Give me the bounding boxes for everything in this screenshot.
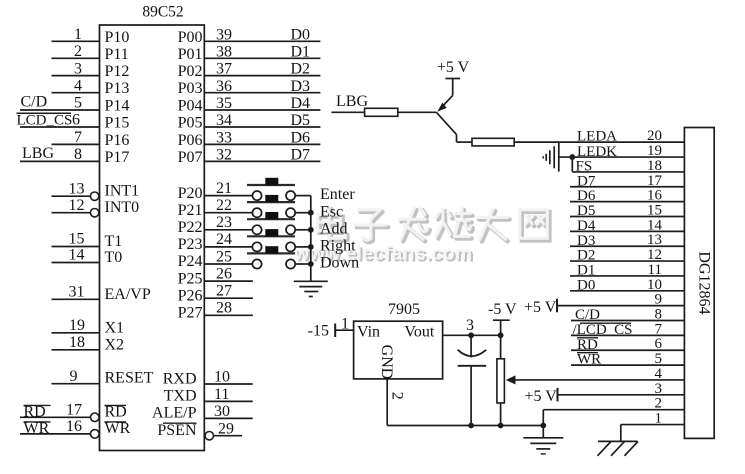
svg-text:32: 32 — [216, 147, 232, 164]
junction Vout/C1 — [468, 332, 474, 338]
svg-text:26: 26 — [216, 265, 232, 282]
svg-text:15: 15 — [647, 203, 662, 219]
svg-text:T0: T0 — [105, 249, 123, 266]
svg-text:P04: P04 — [178, 98, 203, 115]
power -5 V label — [488, 301, 517, 335]
svg-text:18: 18 — [647, 158, 662, 174]
svg-text:P22: P22 — [178, 219, 203, 236]
power +5 V to pin 9 — [524, 292, 684, 316]
svg-text:8: 8 — [74, 146, 82, 163]
pushbutton S1 (Enter) — [247, 178, 311, 200]
svg-text:9: 9 — [655, 292, 663, 308]
pushbutton S4 (Right) — [247, 229, 311, 251]
junction rail/RP1 — [498, 423, 504, 429]
pin 21 (P20) wire — [178, 180, 253, 202]
svg-text:25: 25 — [216, 248, 232, 265]
wire D7 (pin 17) — [570, 173, 684, 190]
svg-text:C/D: C/D — [21, 94, 48, 111]
potentiometer RP1 — [497, 335, 505, 425]
svg-text:2: 2 — [655, 396, 663, 412]
pin 6 (P15) wire — [20, 112, 129, 132]
svg-text:D4: D4 — [290, 95, 310, 112]
svg-text:Add: Add — [320, 220, 348, 237]
pushbutton S3 (Add) — [247, 212, 311, 234]
pin 15 (T1) wire — [52, 231, 123, 250]
svg-text:ALE/P: ALE/P — [152, 405, 197, 422]
svg-text:39: 39 — [216, 26, 232, 43]
svg-text:Right: Right — [320, 238, 356, 255]
svg-text:P13: P13 — [105, 80, 130, 97]
svg-text:28: 28 — [216, 300, 232, 317]
svg-text:D4: D4 — [577, 218, 596, 234]
pin 27 (P26) wire — [178, 283, 253, 305]
net label FS (pin 18) — [576, 158, 663, 175]
pin 22 (P21) wire — [178, 197, 253, 219]
watermark: elecfans chinese logo — [320, 209, 550, 242]
svg-text:36: 36 — [216, 78, 232, 95]
pin 31 (EA/VP) wire — [52, 284, 151, 303]
svg-text:LEDK: LEDK — [577, 144, 617, 160]
junction bus/Esc — [308, 210, 314, 216]
svg-text:INT0: INT0 — [105, 199, 140, 216]
svg-text:Enter: Enter — [320, 186, 355, 203]
svg-text:/LCD CS: /LCD CS — [573, 322, 633, 338]
svg-text:15: 15 — [69, 231, 85, 248]
pin 35 (P04) wire, net D4 — [178, 95, 321, 114]
svg-text:P25: P25 — [178, 270, 203, 287]
svg-text:X2: X2 — [105, 336, 125, 353]
svg-text:D2: D2 — [290, 61, 310, 78]
svg-text:P17: P17 — [105, 149, 130, 166]
wire LBG to resistor — [331, 111, 364, 113]
svg-text:D1: D1 — [290, 43, 310, 60]
junction rail end / pin2 drop — [540, 423, 546, 429]
pin 25 (P24) wire — [178, 248, 253, 270]
pin 29 (PSEN) wire with inversion bubble and overbar — [157, 420, 242, 440]
wire R1 to transistor base — [398, 111, 437, 113]
svg-text:21: 21 — [216, 180, 232, 197]
svg-text:8: 8 — [655, 307, 663, 323]
svg-text:-5 V: -5 V — [488, 301, 517, 318]
wire RD (pin 6) with overbar — [571, 336, 684, 353]
junction bus/Down — [308, 261, 314, 267]
wire D6 (pin 16) — [570, 188, 684, 205]
svg-text:31: 31 — [69, 284, 85, 301]
chassis ground (pin 1) — [598, 441, 639, 455]
svg-text:14: 14 — [69, 247, 85, 264]
pin 18 (X2) wire — [52, 334, 125, 353]
pushbutton S2 (Esc) — [247, 195, 311, 217]
svg-text:DG12864: DG12864 — [695, 251, 712, 314]
svg-text:34: 34 — [216, 112, 232, 129]
svg-text:RESET: RESET — [105, 370, 154, 387]
pin 17 (RD) wire with inversion bubble and net label — [20, 402, 127, 422]
svg-text:18: 18 — [69, 334, 85, 351]
svg-text:LCD_CS: LCD_CS — [17, 113, 73, 129]
svg-text:GND: GND — [378, 345, 395, 380]
pin 4 (P13) wire — [52, 77, 130, 97]
svg-text:23: 23 — [216, 214, 232, 231]
wire Vout pin 3 — [443, 317, 501, 336]
wire /LCD CS (pin 7) with overbar — [571, 321, 684, 338]
svg-text:22: 22 — [216, 197, 232, 214]
svg-text:12: 12 — [69, 197, 85, 214]
svg-text:7: 7 — [655, 321, 663, 337]
svg-text:TXD: TXD — [164, 388, 197, 405]
pin 5 (P14) wire — [20, 95, 129, 115]
svg-text:7: 7 — [74, 129, 82, 146]
pin 28 (P27) wire — [178, 300, 253, 322]
svg-text:1: 1 — [341, 316, 349, 333]
svg-text:6: 6 — [655, 336, 663, 352]
svg-text:PSEN: PSEN — [157, 422, 197, 439]
svg-text:1: 1 — [655, 411, 663, 427]
pin 2 (P11) wire — [52, 43, 129, 63]
wire LEDK (pin 19) — [559, 156, 685, 158]
junction bus/Right — [308, 244, 314, 250]
svg-text:Vin: Vin — [357, 324, 380, 341]
svg-text:27: 27 — [216, 283, 232, 300]
svg-text:13: 13 — [647, 232, 662, 248]
svg-text:D5: D5 — [577, 203, 595, 219]
svg-text:11: 11 — [214, 386, 229, 403]
svg-text:19: 19 — [69, 317, 85, 334]
svg-text:RXD: RXD — [163, 370, 197, 387]
svg-text:C/D: C/D — [575, 307, 600, 323]
svg-text:37: 37 — [216, 61, 232, 78]
svg-text:X1: X1 — [105, 319, 125, 336]
pin 39 (P00) wire, net D0 — [178, 26, 321, 45]
IC U2 7905 body — [354, 321, 443, 379]
pin 13 (INT1) wire with inversion bubble — [52, 180, 140, 200]
pin 23 (P22) wire — [178, 214, 253, 236]
svg-text:3: 3 — [655, 381, 663, 397]
pin 12 (INT0) wire with inversion bubble — [52, 197, 140, 217]
svg-text:6: 6 — [72, 112, 80, 129]
svg-text:5: 5 — [74, 95, 82, 112]
svg-text:P15: P15 — [105, 115, 130, 132]
power +5 V (transistor emitter) — [437, 59, 470, 95]
svg-text:+5 V: +5 V — [437, 59, 470, 76]
svg-text:P06: P06 — [178, 132, 203, 149]
junction bus/Add — [308, 227, 314, 233]
svg-text:16: 16 — [66, 418, 82, 435]
svg-text:P14: P14 — [105, 98, 130, 115]
svg-text:P26: P26 — [178, 287, 203, 304]
wire FS (pin 18) — [572, 171, 684, 173]
wire D5 (pin 15) — [570, 203, 684, 220]
pin 16 (WR) wire with inversion bubble and net label — [20, 418, 131, 438]
wire D4 (pin 14) — [570, 217, 684, 234]
svg-text:4: 4 — [655, 366, 663, 382]
pin 19 (X1) wire — [52, 317, 125, 336]
wire C/D (pin 8) — [571, 307, 684, 324]
svg-text:EA/VP: EA/VP — [105, 286, 151, 303]
pin 38 (P01) wire, net D1 — [178, 43, 321, 62]
svg-text:P01: P01 — [178, 46, 203, 63]
svg-text:3: 3 — [74, 60, 82, 77]
svg-text:P24: P24 — [178, 253, 203, 270]
svg-text:P10: P10 — [105, 29, 130, 46]
supply -15 with tick, pin 1 — [308, 316, 354, 340]
svg-text:LEDA: LEDA — [577, 128, 617, 144]
pin 2 GND wire down to rail — [387, 379, 406, 426]
svg-text:2: 2 — [389, 392, 406, 400]
net label LCD_CS with overbar (pin 6) — [17, 113, 73, 129]
IC U1 89C52 body — [100, 25, 205, 451]
pushbutton S5 (Down) — [247, 246, 311, 268]
svg-text:D0: D0 — [290, 26, 310, 43]
pin 36 (P03) wire, net D3 — [178, 78, 321, 97]
pin 34 (P05) wire, net D5 — [178, 112, 321, 131]
svg-text:33: 33 — [216, 130, 232, 147]
svg-text:T1: T1 — [105, 233, 123, 250]
svg-text:-15: -15 — [308, 322, 329, 339]
ground button bus — [294, 277, 328, 297]
pin 9 (RESET) wire — [52, 368, 154, 387]
svg-text:P23: P23 — [178, 236, 203, 253]
pin 32 (P07) wire, net D7 — [178, 147, 321, 166]
pin 26 (P25) wire — [178, 265, 253, 287]
svg-text:11: 11 — [648, 262, 662, 278]
svg-text:13: 13 — [69, 180, 85, 197]
svg-text:24: 24 — [216, 231, 232, 248]
svg-text:P02: P02 — [178, 63, 203, 80]
wire pin 1 to chassis ground — [621, 411, 685, 442]
svg-text:2: 2 — [74, 43, 82, 60]
svg-text:16: 16 — [647, 188, 663, 204]
svg-text:D6: D6 — [290, 130, 310, 147]
svg-text:20: 20 — [647, 128, 662, 144]
ground rail symbol — [523, 426, 563, 454]
resistor R2 — [472, 138, 514, 146]
wire pot wiper to pin 4 (arrow) — [506, 366, 685, 385]
junction rail/C1 — [468, 423, 474, 429]
wire WR (pin 5) with overbar — [571, 351, 684, 368]
svg-text:+5 V: +5 V — [525, 388, 558, 405]
pin 30 (ALE/P) wire — [152, 403, 253, 422]
power +5 V to pin 3 — [525, 381, 685, 405]
svg-text:4: 4 — [74, 77, 82, 94]
wire pin 2 to ground rail — [543, 396, 684, 426]
pin 11 (TXD) wire — [164, 386, 253, 405]
svg-text:RD: RD — [105, 404, 127, 421]
svg-text:14: 14 — [647, 217, 663, 233]
svg-text:17: 17 — [66, 402, 82, 419]
pin 7 (P16) wire — [52, 129, 130, 149]
svg-text:P07: P07 — [178, 149, 203, 166]
ground stub at LEDK (rotated ground symbol) — [543, 142, 559, 172]
svg-text:29: 29 — [218, 420, 234, 437]
wire R2 to LEDA (DG12864 pin 20) — [514, 141, 684, 143]
svg-text:LBG: LBG — [22, 145, 54, 162]
svg-text:3: 3 — [466, 317, 474, 334]
svg-text:7905: 7905 — [388, 301, 420, 318]
transistor Q1 (PNP, emitter arrow) — [436, 95, 456, 142]
wire junction down to FS — [571, 157, 573, 172]
svg-text:D0: D0 — [577, 277, 595, 293]
pin 3 (P12) wire — [52, 60, 130, 80]
junction Vout/-5V/RP1 — [498, 332, 504, 338]
net label LEDK (pin 19) — [577, 143, 662, 160]
pin 10 (RXD) wire — [163, 369, 253, 388]
wire D2 (pin 12) — [570, 247, 684, 264]
svg-text:35: 35 — [216, 95, 232, 112]
svg-text:38: 38 — [216, 43, 232, 60]
svg-text:Down: Down — [320, 255, 359, 272]
svg-text:89C52: 89C52 — [142, 4, 183, 21]
svg-text:17: 17 — [647, 173, 663, 189]
pin 8 (P17) wire — [20, 146, 129, 166]
svg-text:LBG: LBG — [336, 93, 368, 110]
svg-text:D7: D7 — [577, 173, 596, 189]
svg-text:P21: P21 — [178, 202, 203, 219]
svg-text:P20: P20 — [178, 185, 203, 202]
svg-text:P27: P27 — [178, 305, 203, 322]
svg-text:9: 9 — [70, 368, 78, 385]
svg-text:5: 5 — [655, 351, 663, 367]
svg-text:P12: P12 — [105, 63, 130, 80]
capacitor C1 — [458, 335, 487, 425]
svg-text:Esc: Esc — [320, 203, 343, 220]
pin 1 (P10) wire — [52, 26, 130, 46]
svg-text:WR: WR — [577, 352, 601, 368]
svg-text:P11: P11 — [105, 46, 129, 63]
svg-text:19: 19 — [647, 143, 662, 159]
svg-text:+5 V: +5 V — [524, 299, 557, 316]
svg-text:INT1: INT1 — [105, 183, 140, 200]
junction LEDK/FS — [569, 154, 575, 160]
svg-text:1: 1 — [74, 26, 82, 43]
svg-text:D7: D7 — [290, 147, 310, 164]
svg-text:RD: RD — [577, 337, 598, 353]
wire D1 (pin 11) — [570, 262, 684, 279]
svg-text:D2: D2 — [577, 248, 595, 264]
wire button common bus — [310, 196, 312, 277]
wire D3 (pin 13) — [570, 232, 684, 249]
svg-text:12: 12 — [647, 247, 662, 263]
svg-text:D1: D1 — [577, 263, 595, 279]
svg-text:D5: D5 — [290, 112, 310, 129]
resistor R1 — [365, 108, 398, 116]
svg-text:P00: P00 — [178, 29, 203, 46]
svg-text:P16: P16 — [105, 132, 130, 149]
wire D0 (pin 10) — [570, 277, 684, 294]
svg-text:FS: FS — [576, 159, 593, 175]
svg-text:10: 10 — [214, 369, 230, 386]
connector J1 DG12864 body — [684, 128, 714, 439]
svg-text:D3: D3 — [577, 233, 595, 249]
net label LEDA (pin 20) — [577, 128, 662, 144]
svg-text:P03: P03 — [178, 80, 203, 97]
svg-text:P05: P05 — [178, 115, 203, 132]
ground rail — [387, 425, 543, 427]
svg-text:WR: WR — [105, 420, 131, 437]
pin 24 (P23) wire — [178, 231, 253, 253]
svg-text:10: 10 — [647, 277, 662, 293]
pin 14 (T0) wire — [52, 247, 123, 266]
wire collector to R2 — [457, 141, 473, 143]
svg-text:D6: D6 — [577, 188, 596, 204]
svg-text:D3: D3 — [290, 78, 310, 95]
pin 33 (P06) wire, net D6 — [178, 130, 321, 149]
svg-text:Vout: Vout — [404, 324, 434, 341]
pin 37 (P02) wire, net D2 — [178, 61, 321, 80]
svg-text:30: 30 — [214, 403, 230, 420]
